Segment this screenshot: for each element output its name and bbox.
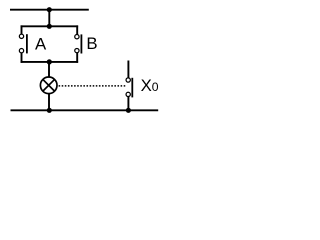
wire left branch lower bbox=[21, 53, 23, 63]
switch B contact bar bbox=[80, 34, 82, 53]
lamp indicator bbox=[40, 77, 57, 94]
node junction lamp to bottom rail bbox=[47, 108, 52, 113]
switch A top terminal bbox=[19, 34, 23, 38]
switch B bottom terminal bbox=[75, 48, 79, 52]
wire right branch upper bbox=[76, 25, 78, 34]
wire from branch bottom to lamp bbox=[48, 62, 50, 77]
node junction on top rail bbox=[47, 7, 52, 12]
wire switch X0 to bottom rail bbox=[127, 97, 129, 111]
switch A contact bar bbox=[26, 34, 28, 53]
switch X0 top terminal bbox=[126, 78, 130, 82]
wire bottom supply rail bbox=[11, 109, 159, 111]
wire top supply rail bbox=[10, 9, 89, 11]
wire left branch upper bbox=[21, 25, 23, 34]
switch X0 contact bar bbox=[131, 78, 133, 98]
mechanical link dotted line lamp to switch X0 bbox=[59, 85, 126, 87]
node junction on branch top line bbox=[47, 24, 52, 29]
wire branch bottom line bbox=[21, 61, 79, 63]
switch A bottom terminal bbox=[19, 49, 23, 53]
wire branch top line bbox=[21, 25, 79, 27]
wire from top rail down to parallel branch bbox=[48, 10, 50, 27]
wire lamp to bottom rail bbox=[48, 94, 50, 111]
switch B top terminal bbox=[75, 35, 79, 39]
node junction on branch bottom line bbox=[47, 59, 52, 64]
switch X0 bottom terminal bbox=[126, 92, 130, 96]
wire stub above switch X0 bbox=[127, 61, 129, 79]
svg-text:A: A bbox=[35, 34, 47, 53]
wire right branch lower bbox=[76, 53, 78, 63]
svg-text:B: B bbox=[86, 34, 97, 53]
node junction switch X0 to bottom rail bbox=[126, 108, 131, 113]
